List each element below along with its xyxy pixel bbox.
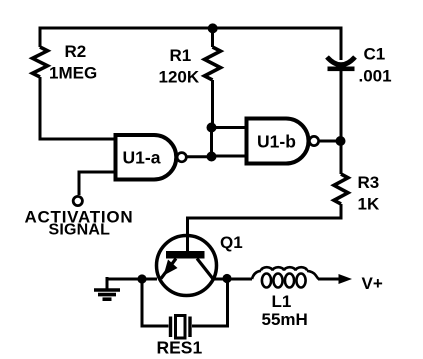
wire U1-a lower input to activation terminal	[79, 172, 116, 195]
svg-text:R2: R2	[65, 42, 87, 61]
svg-text:SIGNAL: SIGNAL	[49, 222, 111, 239]
wire resonator left leg	[142, 279, 169, 326]
resistor R3	[334, 174, 348, 204]
wire U1-b output to right rail	[319, 140, 341, 143]
node dot R1 bottom	[207, 123, 217, 133]
transistor Q1 collector line	[197, 259, 214, 280]
wire L1 to V+ arrow	[318, 278, 340, 281]
node dot U1-b output	[336, 136, 346, 146]
node dot top rail / R1	[208, 23, 218, 33]
svg-text:Q1: Q1	[220, 233, 243, 252]
svg-text:V+: V+	[362, 274, 383, 293]
resonator RES1 left plate	[169, 317, 172, 338]
wire collector to L1	[212, 278, 252, 281]
node dot emitter/resonator	[137, 274, 146, 283]
wire right rail top (C1 top lead)	[340, 27, 343, 61]
wire resonator right leg	[192, 279, 228, 326]
svg-text:L1: L1	[272, 292, 292, 311]
svg-text:U1-b: U1-b	[257, 132, 296, 152]
svg-text:1K: 1K	[358, 195, 380, 214]
ground stub	[106, 277, 109, 289]
wire U1-a output to node	[186, 155, 212, 158]
wire R3 bottom to base lead corner	[186, 204, 341, 218]
transistor Q1 emitter arrowhead	[164, 260, 178, 276]
NAND gate U1-a	[116, 135, 177, 180]
wire R2 top lead	[39, 27, 42, 48]
svg-text:.001: .001	[359, 67, 392, 86]
wire node connector vertical	[210, 128, 213, 157]
svg-text:1MEG: 1MEG	[49, 64, 97, 83]
svg-text:120K: 120K	[159, 68, 200, 87]
wire right rail C1 bottom to R3	[340, 71, 343, 174]
output bubble U1-a	[177, 153, 186, 162]
wire emitter to ground	[106, 278, 158, 281]
resistor R1	[205, 47, 221, 80]
resonator RES1 right plate	[188, 317, 191, 338]
wire top rail	[40, 27, 341, 30]
wire R1 top lead	[211, 28, 214, 47]
capacitor C1 straight plate	[328, 67, 355, 72]
node dot collector	[222, 274, 231, 283]
svg-text:R1: R1	[170, 46, 192, 65]
resistor R2	[33, 47, 48, 77]
inductor L1	[252, 267, 319, 287]
svg-text:C1: C1	[364, 45, 386, 64]
wire R2 bottom lead down to U1-a upper input	[40, 77, 116, 139]
wire to U1-b upper input	[212, 126, 248, 129]
ground	[94, 290, 120, 299]
svg-text:R3: R3	[358, 173, 380, 192]
svg-text:55mH: 55mH	[262, 310, 308, 329]
svg-text:U1-a: U1-a	[123, 148, 161, 168]
output bubble U1-b	[309, 136, 318, 145]
terminal circle ACTIVATION	[73, 196, 82, 205]
NAND gate U1-b	[247, 119, 309, 164]
resonator RES1 crystal box	[176, 316, 186, 339]
node dot U1-a output	[207, 152, 217, 162]
wire R1 bottom lead to node	[211, 80, 214, 128]
wire base lead down	[186, 218, 189, 252]
transistor Q1 base bar	[166, 251, 205, 259]
capacitor C1 curved plate	[327, 57, 355, 65]
svg-text:RES1: RES1	[157, 338, 203, 358]
arrowhead V+	[339, 274, 353, 284]
transistor Q1 body circle	[157, 236, 217, 296]
transistor Q1 emitter line	[161, 259, 176, 279]
wire to U1-b lower input	[212, 155, 248, 158]
